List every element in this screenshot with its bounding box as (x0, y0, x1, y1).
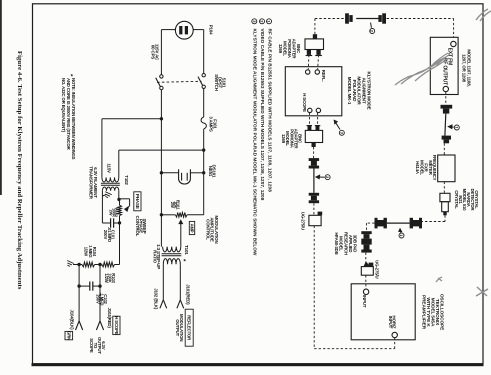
svg-text:T102: T102 (124, 175, 129, 185)
svg-text:J101(RED): J101(RED) (186, 284, 191, 305)
rf cable barrel right (410, 218, 413, 229)
wire R102 to C101 junction (119, 216, 121, 223)
INPUT terminal (363, 289, 368, 294)
pencil scribble top right corner (476, 9, 491, 21)
note 2 pointer mid (325, 175, 330, 180)
BNC adapter 2 below box (308, 125, 312, 130)
svg-text:H414A: H414A (415, 161, 420, 174)
dashed video cable to EXT FM (387, 18, 454, 20)
jack J103 (96, 321, 100, 330)
scan edge artifact left (0, 0, 2, 195)
video cable run (356, 18, 379, 20)
junction rail mid (98, 263, 101, 266)
dashed RF OUTPUT to connector (445, 92, 447, 105)
transformer T102 (102, 177, 119, 182)
wire plug left (161, 29, 175, 31)
svg-text:H SCOPE: H SCOPE (302, 93, 307, 112)
left bus wire (160, 90, 162, 247)
dashed 3db pad to UG-275/U 2 (365, 253, 367, 263)
transformer T101 (163, 247, 181, 252)
RF cable 1 run (444, 114, 447, 136)
svg-text:PHASE: PHASE (135, 194, 140, 209)
svg-text:KLYSTRON MODE ALIGNMENT MODULA: KLYSTRON MODE ALIGNMENT MODULATOR POLARA… (252, 29, 257, 256)
wire to T102 primary left (102, 118, 161, 120)
switch gang dashed link (157, 81, 202, 82)
svg-text:MODEL MK-1: MODEL MK-1 (347, 77, 352, 105)
H SCOPE terminals (308, 108, 312, 112)
svg-text:J103(RED): J103(RED) (107, 308, 112, 329)
svg-text:UG-275/U: UG-275/U (300, 212, 305, 230)
UG-275/U elbow right (361, 267, 373, 276)
RF signal generator box (430, 37, 458, 94)
3db pad connector upper (361, 231, 371, 234)
REFL terminals (306, 70, 310, 74)
lamp wire (160, 171, 163, 174)
dashed H SCOPE to adapter 2 (309, 113, 311, 126)
T102 secondary left lead (101, 191, 103, 223)
svg-text:UG-275/U: UG-275/U (375, 260, 380, 278)
switch S101 contacts left (160, 75, 163, 78)
note 3 arrow to box (334, 120, 340, 129)
junction left bus to T102 (160, 117, 163, 120)
wire plug right (193, 29, 204, 31)
rf cable barrel left (375, 218, 378, 229)
wire phase circuit to divider rail (119, 223, 121, 265)
label GRN boxed (65, 331, 73, 339)
plug P104 (175, 21, 193, 39)
R102 pot loop wire (120, 198, 130, 200)
dashed adapter1 to REFL terminals (307, 55, 310, 69)
R101 wiper arrow (180, 220, 182, 246)
klystron modulator box U-MK1 (285, 67, 342, 116)
svg-text:OUTPUT: OUTPUT (175, 319, 180, 336)
note 3 circled (252, 19, 257, 24)
svg-text:NO. A32C OR EQUIVALENT): NO. A32C OR EQUIVALENT) (61, 78, 66, 133)
junction rail left (77, 263, 80, 266)
svg-text:INPUT: INPUT (388, 316, 393, 329)
BNC connector to freq meter (442, 136, 451, 140)
svg-text:TRANSFORMER: TRANSFORMER (89, 166, 94, 199)
label H SCOPE boxed (113, 316, 120, 334)
svg-text:115V: 115V (107, 164, 112, 174)
junction right bus to T102 (202, 148, 205, 151)
svg-text:H SCOPE: H SCOPE (114, 316, 119, 335)
note 2 pointer top (370, 29, 375, 34)
ground at T102 secondary (102, 195, 106, 196)
dashed to UG-275/U (313, 203, 315, 215)
EXT FM terminal (451, 41, 456, 46)
barrel connector lower (309, 193, 319, 196)
svg-text:VIDEO CABLE P/N B12553 SUPPLIE: VIDEO CABLE P/N B12553 SUPPLIED WITH MOD… (260, 29, 265, 201)
svg-text:GRN: GRN (66, 331, 71, 340)
frequency meter box (438, 155, 455, 182)
svg-text:1/2W: 1/2W (84, 247, 89, 256)
jack J104 (76, 321, 80, 330)
note 1 circled (267, 19, 272, 24)
svg-text:CONTROL: CONTROL (205, 219, 210, 240)
dashed adapter2 to barrel (313, 147, 315, 158)
svg-text:1269: 1269 (278, 44, 283, 54)
bottom rail ground (65, 260, 73, 267)
dashed to frequency meter (443, 143, 445, 155)
3db pad connector lower (361, 242, 371, 245)
dashed crystal to rf cable (444, 215, 446, 221)
svg-text:60 CPS: 60 CPS (150, 45, 155, 59)
svg-text:1/2W: 1/2W (104, 273, 109, 282)
RF OUTPUT terminal (443, 86, 448, 91)
svg-text:1269: 1269 (281, 134, 286, 144)
jack J102 (160, 300, 163, 309)
jack J101 (177, 300, 180, 309)
svg-text:SWITCH: SWITCH (214, 74, 219, 90)
svg-text:Figure 4-6. Test Setup for Kl: Figure 4-6. Test Setup for Klystron Freq… (16, 51, 23, 290)
svg-text:CONTROL: CONTROL (135, 216, 140, 237)
svg-text:RF CABLE P/N B12551 SUPPLIED W: RF CABLE P/N B12551 SUPPLIED WITH MODELS… (268, 29, 273, 193)
note 1 pointer upper (454, 125, 459, 130)
wire to T102 primary right (119, 149, 204, 151)
label AMP boxed (189, 221, 194, 234)
pencil scribble in RF box (433, 53, 450, 66)
wire R103 to corner (115, 264, 120, 266)
dashed freq meter to crystal (443, 182, 445, 194)
resistor R102 (118, 205, 122, 215)
video cable 2 run (313, 169, 315, 193)
svg-text:SCOPE: SCOPE (89, 338, 94, 353)
pot wire from right bus (203, 213, 205, 215)
capacitor C102 (79, 285, 90, 287)
oscilloscope box (351, 284, 415, 340)
resistor R101 potentiometer (175, 213, 187, 218)
HORIZ INPUT terminal (392, 332, 397, 337)
svg-text:INPUT: INPUT (362, 295, 367, 308)
junction secondary right (117, 198, 120, 201)
T101 secondary leads (162, 264, 164, 300)
note 1 pointer lower (399, 233, 404, 238)
capacitor C101 (102, 222, 110, 224)
label REFLECTOR boxed (185, 309, 193, 346)
svg-text:PREAMPLIFIER: PREAMPLIFIER (421, 295, 427, 330)
svg-text:3 AMPS: 3 AMPS (209, 116, 214, 132)
pencil X on border (476, 287, 488, 296)
crystal detector (440, 193, 450, 201)
wire UG to scope input (365, 275, 367, 289)
fuse F101 (203, 89, 205, 118)
UG-275/U elbow mid (309, 215, 321, 225)
svg-text:RATIO: RATIO (153, 250, 158, 263)
BNC adapter 1 above box (313, 34, 317, 39)
dashed adapter1 up (314, 19, 316, 35)
svg-text:200V: 200V (103, 230, 108, 240)
resistor R103 (102, 262, 115, 267)
svg-text:REFL.: REFL. (321, 70, 326, 82)
neon lamp DS101 (179, 169, 191, 184)
svg-text:1207, OR 1208: 1207, OR 1208 (462, 54, 467, 83)
svg-text:2W: 2W (170, 202, 175, 208)
BNC male connector under RF box (441, 105, 453, 109)
dashed to video cable top (315, 18, 349, 20)
svg-text:AMP: AMP (189, 224, 194, 233)
switch S101 contacts right (202, 74, 205, 77)
video cable connector right (378, 15, 381, 22)
svg-text:CRYSTAL: CRYSTAL (454, 190, 459, 209)
wire R104-R103 (95, 264, 102, 266)
pencil mark near scope (436, 277, 442, 282)
svg-text:2W: 2W (108, 210, 113, 216)
video cable connector left (345, 13, 349, 23)
label PHASE boxed (134, 192, 141, 211)
pencil scribble signature (395, 57, 449, 85)
note 2 circled (260, 19, 265, 24)
rf cable 1b run (387, 222, 410, 224)
svg-text:HFA50-3DB: HFA50-3DB (334, 232, 339, 254)
svg-text:T101: T101 (184, 245, 189, 255)
svg-text:J102 (BLK): J102 (BLK) (153, 288, 158, 310)
svg-text:NE51: NE51 (208, 166, 213, 177)
barrel connector upper (309, 158, 319, 161)
divider drop wires (78, 265, 80, 287)
output leads to jacks (78, 286, 80, 321)
svg-text:REFLECTOR: REFLECTOR (187, 315, 192, 341)
svg-text:J104(BLK): J104(BLK) (69, 310, 74, 331)
svg-text:P104: P104 (209, 25, 214, 35)
T102 secondary right lead (118, 191, 120, 200)
long dashed to scope horiz (313, 226, 315, 349)
dashed rf cable to 3db pad (367, 222, 375, 224)
resistor R104 (82, 262, 95, 267)
